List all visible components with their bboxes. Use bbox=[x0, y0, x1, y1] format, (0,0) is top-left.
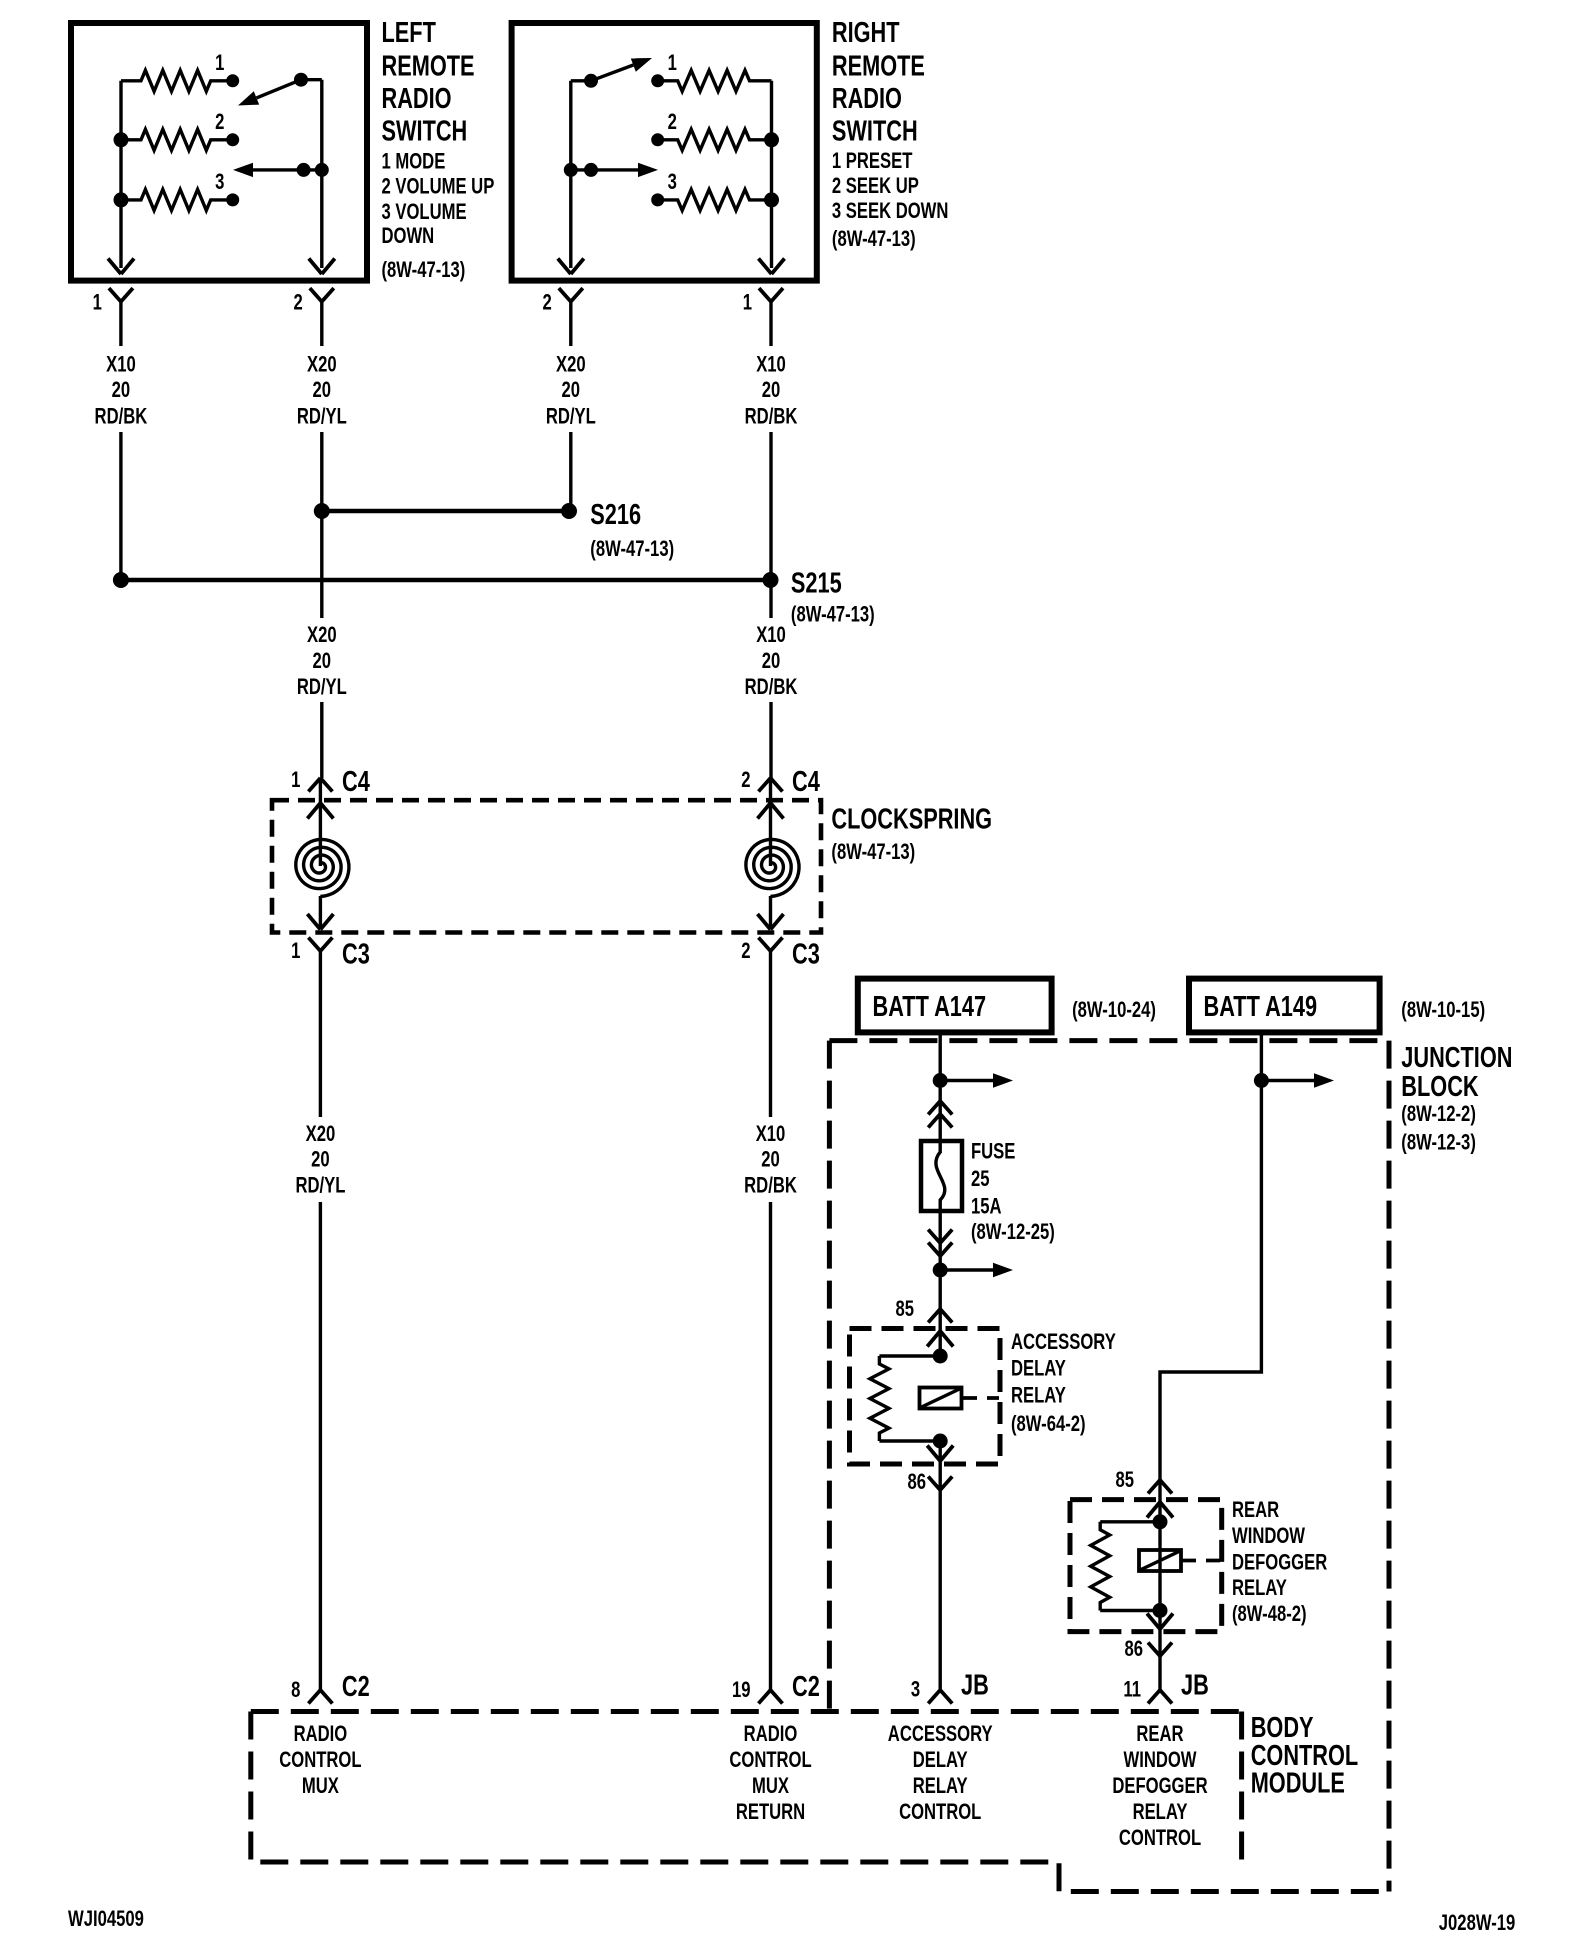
accessory relay coil top dot bbox=[933, 1349, 948, 1364]
fuse element wave bbox=[936, 1152, 945, 1200]
junction block dashed outline bbox=[829, 1041, 1389, 1892]
svg-text:20: 20 bbox=[313, 649, 332, 674]
defogger relay actuator stub bbox=[1181, 1559, 1220, 1563]
svg-text:(8W-47-13): (8W-47-13) bbox=[791, 602, 875, 627]
right switch pin1 arrow into bottom wall bbox=[759, 259, 785, 275]
defogger relay entry wire bbox=[1158, 1480, 1161, 1522]
svg-text:ACCESSORY: ACCESSORY bbox=[1011, 1330, 1116, 1355]
resistor 3 contact dot bbox=[226, 193, 239, 206]
svg-text:LEFT: LEFT bbox=[382, 17, 437, 49]
S215 right dot bbox=[763, 572, 779, 588]
svg-text:REMOTE: REMOTE bbox=[382, 51, 475, 83]
svg-text:1 PRESET: 1 PRESET bbox=[832, 149, 912, 174]
wire RD/YL S216 down to label gap bbox=[320, 511, 323, 618]
svg-text:X10: X10 bbox=[756, 622, 786, 647]
svg-text:JB: JB bbox=[1181, 1670, 1209, 1702]
left switch resistor 3 (VOLUME DOWN) bbox=[121, 189, 233, 210]
svg-text:JUNCTION: JUNCTION bbox=[1401, 1042, 1512, 1074]
defogger relay entry arrow bbox=[1147, 1502, 1173, 1518]
svg-text:X20: X20 bbox=[556, 352, 586, 377]
left remote radio switch box bbox=[71, 23, 367, 281]
connector C2 pin 19 bbox=[759, 1690, 783, 1704]
svg-text:RETURN: RETURN bbox=[736, 1800, 805, 1825]
resistor 3 contact dot bbox=[651, 193, 664, 206]
svg-text:2: 2 bbox=[668, 109, 677, 134]
svg-text:FUSE: FUSE bbox=[971, 1139, 1015, 1164]
wiper pivot dot bbox=[294, 73, 308, 87]
svg-text:X20: X20 bbox=[306, 1122, 336, 1147]
resistor 3 bus junction dot bbox=[114, 192, 129, 207]
svg-text:J028W-19: J028W-19 bbox=[1439, 1911, 1515, 1936]
accessory relay actuator stub bbox=[962, 1396, 1000, 1400]
svg-text:(8W-47-13): (8W-47-13) bbox=[831, 840, 915, 865]
svg-text:X10: X10 bbox=[756, 352, 786, 377]
stub second dot bbox=[297, 163, 311, 177]
wire RD/YL resume down to C2 pin 8 bbox=[319, 1202, 322, 1690]
svg-text:BLOCK: BLOCK bbox=[1401, 1071, 1479, 1103]
stub dot on bus bbox=[315, 163, 329, 177]
left switch wiper arrow (to contact 1/2) bbox=[257, 80, 302, 98]
accessory delay relay dashed box bbox=[850, 1329, 1001, 1465]
A147 distribution dot bbox=[933, 1073, 948, 1088]
accessory relay exit arrow bbox=[927, 1446, 953, 1462]
svg-text:15A: 15A bbox=[971, 1194, 1002, 1219]
S215 left dot bbox=[113, 572, 129, 588]
svg-text:DEFOGGER: DEFOGGER bbox=[1112, 1774, 1207, 1799]
svg-text:20: 20 bbox=[762, 649, 781, 674]
svg-text:RD/BK: RD/BK bbox=[95, 404, 148, 429]
svg-text:WINDOW: WINDOW bbox=[1123, 1748, 1196, 1773]
svg-text:C2: C2 bbox=[342, 1671, 370, 1703]
svg-text:85: 85 bbox=[895, 1297, 914, 1322]
left switch position-3 stub bbox=[304, 168, 322, 171]
svg-text:CONTROL: CONTROL bbox=[1119, 1826, 1201, 1851]
svg-text:RELAY: RELAY bbox=[1011, 1383, 1066, 1408]
connector C3 pin 1 bbox=[308, 938, 332, 952]
defogger relay coil diagonal bbox=[1140, 1551, 1180, 1570]
svg-text:RD/YL: RD/YL bbox=[297, 675, 347, 700]
left switch left bus wire bbox=[119, 81, 122, 268]
svg-text:CONTROL: CONTROL bbox=[729, 1748, 811, 1773]
svg-text:X10: X10 bbox=[106, 352, 136, 377]
left switch right bus wire bbox=[320, 80, 323, 268]
accessory relay coil bottom dot bbox=[933, 1434, 948, 1449]
wire RD/BK right pin1 down to S215 bbox=[769, 432, 772, 580]
svg-text:(8W-47-13): (8W-47-13) bbox=[382, 258, 466, 283]
svg-text:20: 20 bbox=[311, 1147, 330, 1172]
svg-text:JB: JB bbox=[961, 1670, 989, 1702]
stub second dot bbox=[584, 163, 598, 177]
left switch common stub to wiper dot bbox=[301, 78, 322, 81]
clockspring entry arrow pin2 bbox=[769, 778, 772, 866]
svg-text:1: 1 bbox=[743, 290, 752, 315]
svg-text:(8W-48-2): (8W-48-2) bbox=[1232, 1602, 1307, 1627]
svg-text:19: 19 bbox=[732, 1678, 751, 1703]
splice S216 bus bbox=[320, 509, 569, 514]
left switch wiper arrow (to contact 3) bbox=[253, 168, 304, 171]
svg-text:REAR: REAR bbox=[1136, 1722, 1183, 1747]
right switch wiper arrow (to contact 1) bbox=[591, 65, 633, 81]
svg-text:MODULE: MODULE bbox=[1251, 1768, 1345, 1800]
right switch wiper arrow (to contact 3) bbox=[591, 168, 638, 171]
splice S215 bus bbox=[121, 578, 771, 583]
wire RD/YL right pin2 down to S216 bbox=[569, 432, 572, 511]
wire BATT A149 into junction block bbox=[1160, 1032, 1261, 1480]
connector C2 pin 8 bbox=[308, 1690, 332, 1704]
wire RD/BK resume down to C4 pin 2 bbox=[769, 702, 772, 778]
svg-text:CONTROL: CONTROL bbox=[279, 1748, 361, 1773]
svg-text:20: 20 bbox=[562, 378, 581, 403]
svg-text:25: 25 bbox=[971, 1167, 990, 1192]
BATT A147 feed box bbox=[858, 979, 1052, 1033]
right switch left bus wire bbox=[569, 81, 572, 268]
A147 double chevron disconnect bbox=[928, 1101, 952, 1115]
wire fuse down to relay bbox=[939, 1199, 942, 1356]
svg-text:X10: X10 bbox=[756, 1122, 786, 1147]
resistor 2 contact dot bbox=[651, 133, 664, 146]
left switch pin2 arrow into bottom wall bbox=[309, 259, 335, 275]
clockspring entry arrow pin1 bbox=[319, 778, 322, 866]
svg-text:RD/BK: RD/BK bbox=[744, 1173, 797, 1198]
resistor 2 bus junction dot bbox=[114, 132, 129, 147]
svg-text:RADIO: RADIO bbox=[294, 1722, 348, 1747]
left switch pin1 arrow into bottom wall bbox=[108, 259, 134, 275]
clockspring exit wire pin1 bbox=[319, 896, 322, 930]
defogger relay exit arrow bbox=[1147, 1614, 1173, 1630]
svg-text:1: 1 bbox=[215, 50, 224, 75]
switch connector pin 2 at x=570.8 bbox=[559, 288, 583, 302]
svg-text:3 VOLUME: 3 VOLUME bbox=[382, 200, 467, 225]
right switch resistor 2 (SEEK UP) bbox=[658, 129, 772, 150]
accessory relay coil diagonal bbox=[921, 1389, 961, 1408]
connector C4 pin 2 bbox=[759, 778, 783, 792]
svg-text:WINDOW: WINDOW bbox=[1232, 1524, 1305, 1549]
resistor 3 bus junction dot bbox=[764, 192, 779, 207]
svg-text:(8W-64-2): (8W-64-2) bbox=[1011, 1412, 1086, 1437]
svg-text:RELAY: RELAY bbox=[1133, 1800, 1188, 1825]
svg-text:WJI04509: WJI04509 bbox=[68, 1906, 144, 1931]
svg-text:C4: C4 bbox=[342, 766, 370, 798]
accessory relay resistor bbox=[879, 1354, 940, 1357]
wire RD/YL C3 down to label gap bbox=[319, 985, 322, 1117]
svg-text:(8W-12-25): (8W-12-25) bbox=[971, 1220, 1055, 1245]
svg-text:2 SEEK UP: 2 SEEK UP bbox=[832, 174, 919, 199]
wire RD/BK S215 down to label gap bbox=[769, 580, 772, 618]
body control module dashed outline bbox=[251, 1712, 1389, 1892]
wire RD/YL resume down to C4 pin 1 bbox=[320, 702, 323, 778]
A149 distribution arrow bbox=[1268, 1079, 1314, 1082]
svg-text:20: 20 bbox=[313, 378, 332, 403]
svg-text:REMOTE: REMOTE bbox=[832, 51, 925, 83]
defogger relay coil wire bbox=[1158, 1522, 1161, 1611]
svg-text:DEFOGGER: DEFOGGER bbox=[1232, 1550, 1327, 1575]
resistor 2 contact dot bbox=[226, 133, 239, 146]
clockspring coil left bbox=[296, 839, 349, 896]
right remote radio switch box bbox=[512, 23, 817, 281]
defogger relay coil box bbox=[1139, 1550, 1181, 1571]
svg-text:RD/YL: RD/YL bbox=[546, 404, 596, 429]
clockspring dashed box bbox=[272, 800, 821, 932]
resistor 1 contact dot bbox=[651, 74, 664, 87]
fused output dot bbox=[933, 1263, 948, 1278]
svg-text:C2: C2 bbox=[792, 1671, 820, 1703]
svg-text:1: 1 bbox=[291, 768, 300, 793]
svg-text:RELAY: RELAY bbox=[1232, 1576, 1287, 1601]
svg-text:C3: C3 bbox=[792, 939, 820, 971]
svg-text:86: 86 bbox=[1124, 1637, 1143, 1662]
wiper pivot dot bbox=[584, 74, 598, 88]
svg-text:RADIO: RADIO bbox=[744, 1722, 798, 1747]
svg-text:RADIO: RADIO bbox=[832, 83, 902, 115]
svg-text:3: 3 bbox=[215, 170, 224, 195]
right switch pin2 arrow into bottom wall bbox=[558, 259, 584, 275]
connector C3 pin 2 bbox=[759, 938, 783, 952]
svg-text:1: 1 bbox=[93, 290, 102, 315]
switch connector pin 2 at x=321.8 bbox=[310, 288, 334, 302]
wire RD/BK left pin1 down to S215 bbox=[119, 432, 122, 580]
svg-text:X20: X20 bbox=[307, 622, 337, 647]
svg-text:BATT A147: BATT A147 bbox=[873, 991, 987, 1023]
svg-text:2 VOLUME UP: 2 VOLUME UP bbox=[382, 174, 495, 199]
svg-text:2: 2 bbox=[215, 109, 224, 134]
wire RD/YL left pin2 down to S216 bbox=[320, 432, 323, 511]
wire BATT A147 into junction block bbox=[939, 1032, 942, 1153]
wire RD/BK resume down to C2 pin 19 bbox=[769, 1202, 772, 1690]
svg-text:DELAY: DELAY bbox=[1011, 1356, 1066, 1381]
svg-text:3: 3 bbox=[911, 1677, 920, 1702]
connector C4 pin 1 bbox=[308, 778, 332, 792]
svg-text:1 MODE: 1 MODE bbox=[382, 149, 446, 174]
svg-text:MUX: MUX bbox=[752, 1774, 790, 1799]
svg-text:SWITCH: SWITCH bbox=[382, 116, 468, 148]
svg-text:20: 20 bbox=[761, 1147, 780, 1172]
svg-text:RD/BK: RD/BK bbox=[745, 675, 798, 700]
svg-text:S215: S215 bbox=[791, 568, 842, 600]
svg-text:SWITCH: SWITCH bbox=[832, 116, 918, 148]
svg-text:REAR: REAR bbox=[1232, 1498, 1279, 1523]
svg-text:(8W-10-24): (8W-10-24) bbox=[1072, 997, 1156, 1022]
stub dot on bus bbox=[564, 163, 578, 177]
left switch resistor 1 (MODE) bbox=[121, 70, 233, 91]
A147 distribution arrow bbox=[947, 1079, 993, 1082]
svg-text:(8W-47-13): (8W-47-13) bbox=[832, 227, 916, 252]
svg-text:(8W-10-15): (8W-10-15) bbox=[1401, 997, 1485, 1022]
resistor 2 bus junction dot bbox=[764, 132, 779, 147]
switch connector pin 1 at x=771 bbox=[759, 288, 783, 302]
switch connector pin 1 at x=120.9 bbox=[109, 288, 133, 302]
terminal 85 half connector bbox=[928, 1309, 952, 1323]
svg-text:11: 11 bbox=[1123, 1677, 1141, 1702]
svg-text:BODY: BODY bbox=[1251, 1712, 1314, 1744]
svg-text:DELAY: DELAY bbox=[913, 1748, 968, 1773]
S216 right dot bbox=[561, 503, 577, 519]
svg-text:(8W-12-3): (8W-12-3) bbox=[1401, 1130, 1476, 1155]
svg-text:MUX: MUX bbox=[302, 1774, 340, 1799]
terminal 85 half connector bbox=[1148, 1480, 1172, 1494]
svg-text:86: 86 bbox=[907, 1470, 926, 1495]
connector JB pin 11 bbox=[1148, 1690, 1172, 1704]
rear defogger relay dashed box bbox=[1070, 1500, 1222, 1632]
svg-text:2: 2 bbox=[741, 939, 750, 964]
svg-text:ACCESSORY: ACCESSORY bbox=[888, 1722, 993, 1747]
right switch resistor 3 (SEEK DOWN) bbox=[658, 189, 772, 210]
fuse 25 body bbox=[921, 1141, 962, 1211]
fused output arrow bbox=[947, 1268, 993, 1271]
left switch resistor 2 (VOLUME UP) bbox=[121, 129, 233, 150]
svg-text:DOWN: DOWN bbox=[382, 224, 435, 249]
svg-text:RIGHT: RIGHT bbox=[832, 17, 900, 49]
wire defogger relay to BCM pin 11 bbox=[1158, 1611, 1161, 1691]
right switch right bus wire bbox=[770, 81, 773, 268]
accessory relay entry arrow bbox=[927, 1331, 953, 1347]
svg-text:RELAY: RELAY bbox=[913, 1774, 968, 1799]
svg-text:(8W-12-2): (8W-12-2) bbox=[1401, 1101, 1476, 1126]
accessory relay coil box bbox=[920, 1388, 962, 1409]
svg-text:RD/YL: RD/YL bbox=[297, 404, 347, 429]
defogger relay resistor bbox=[1100, 1520, 1160, 1523]
svg-text:85: 85 bbox=[1115, 1468, 1134, 1493]
svg-text:RD/YL: RD/YL bbox=[295, 1173, 345, 1198]
svg-text:20: 20 bbox=[762, 378, 781, 403]
clockspring exit wire pin2 bbox=[769, 896, 772, 930]
svg-text:2: 2 bbox=[741, 768, 750, 793]
fuse output double chevron bbox=[928, 1230, 952, 1244]
right switch resistor 1 (PRESET) bbox=[658, 70, 772, 91]
svg-text:RD/BK: RD/BK bbox=[745, 404, 798, 429]
connector JB pin 3 bbox=[928, 1690, 952, 1704]
svg-text:RADIO: RADIO bbox=[382, 83, 452, 115]
wire RD/BK C3 down to label gap bbox=[769, 985, 772, 1117]
svg-text:2: 2 bbox=[294, 290, 303, 315]
terminal 86 half connector bbox=[1148, 1643, 1172, 1657]
svg-text:S216: S216 bbox=[590, 499, 641, 531]
svg-text:(8W-47-13): (8W-47-13) bbox=[590, 537, 674, 562]
defogger relay coil bottom dot bbox=[1153, 1603, 1168, 1618]
svg-text:1: 1 bbox=[291, 939, 300, 964]
svg-text:CLOCKSPRING: CLOCKSPRING bbox=[831, 804, 992, 836]
clockspring coil right bbox=[746, 839, 799, 896]
A149 distribution dot bbox=[1254, 1073, 1269, 1088]
svg-text:C4: C4 bbox=[792, 766, 820, 798]
right switch position-3 stub bbox=[571, 168, 591, 171]
svg-text:X20: X20 bbox=[307, 352, 337, 377]
svg-text:BATT A149: BATT A149 bbox=[1204, 991, 1318, 1023]
svg-text:3 SEEK DOWN: 3 SEEK DOWN bbox=[832, 199, 949, 224]
wire accessory relay to BCM pin 3 bbox=[939, 1441, 942, 1690]
svg-text:1: 1 bbox=[668, 50, 677, 75]
svg-text:CONTROL: CONTROL bbox=[899, 1800, 981, 1825]
S216 left dot bbox=[314, 503, 330, 519]
BATT A149 feed box bbox=[1189, 979, 1380, 1033]
defogger relay coil top dot bbox=[1153, 1514, 1168, 1529]
right switch common stub to wiper dot bbox=[571, 79, 591, 82]
svg-text:2: 2 bbox=[543, 290, 552, 315]
resistor 1 contact dot bbox=[226, 74, 239, 87]
svg-text:8: 8 bbox=[291, 1678, 300, 1703]
svg-text:3: 3 bbox=[668, 170, 677, 195]
terminal 86 half connector bbox=[928, 1477, 952, 1491]
svg-text:C3: C3 bbox=[342, 939, 370, 971]
svg-text:20: 20 bbox=[112, 378, 131, 403]
